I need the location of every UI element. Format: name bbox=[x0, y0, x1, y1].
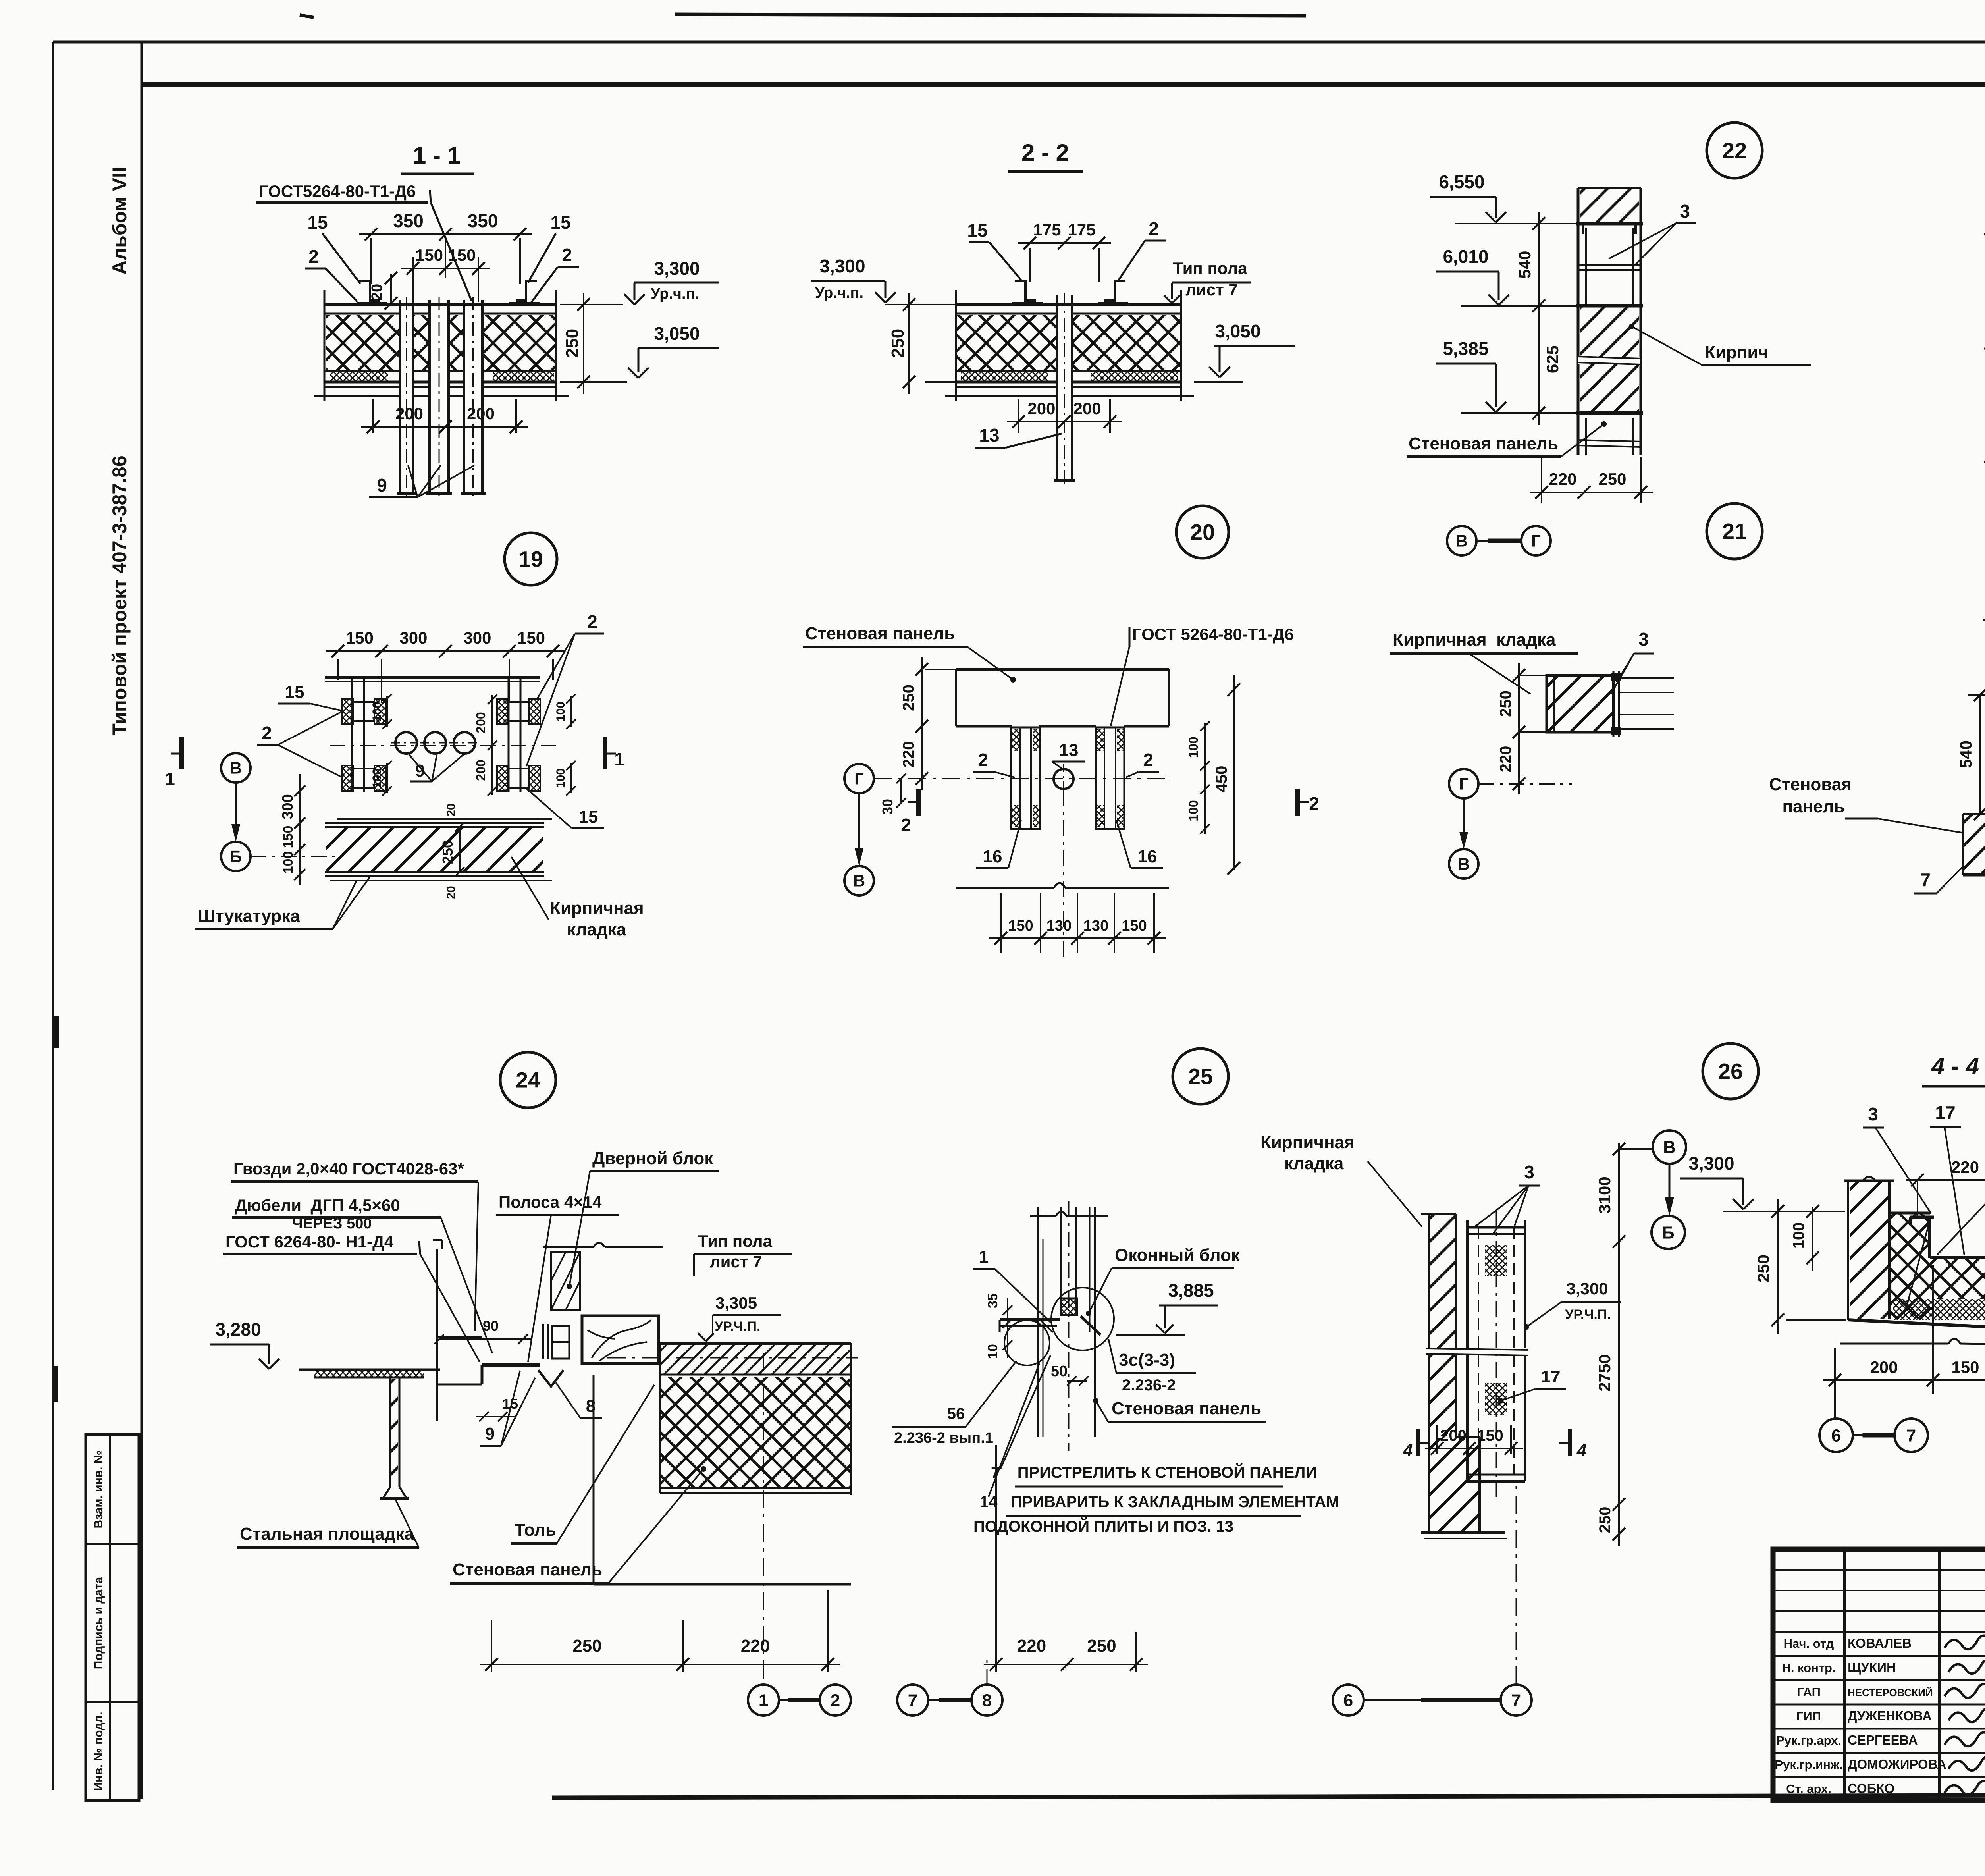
detail 24 threshold sill bbox=[482, 1363, 540, 1367]
svg-text:200: 200 bbox=[395, 404, 423, 423]
detail 24 groove bbox=[538, 1370, 563, 1386]
svg-text:250: 250 bbox=[439, 840, 456, 864]
svg-text:1: 1 bbox=[979, 1247, 989, 1267]
detail 19 dim 200/200 bbox=[372, 399, 374, 433]
svg-text:В: В bbox=[1456, 532, 1468, 550]
svg-text:13: 13 bbox=[1059, 740, 1079, 760]
plan 19 axis V/B circles bbox=[221, 753, 251, 783]
svg-text:220: 220 bbox=[1497, 746, 1515, 773]
svg-text:250: 250 bbox=[1497, 690, 1515, 717]
svg-text:Кирпичная: Кирпичная bbox=[1260, 1133, 1355, 1152]
svg-text:Дверной блок: Дверной блок bbox=[592, 1149, 713, 1168]
axis circles 1-2 bbox=[748, 1685, 779, 1716]
svg-text:Ст. арх.: Ст. арх. bbox=[1786, 1782, 1831, 1796]
svg-text:150: 150 bbox=[1122, 918, 1147, 934]
detail 26 brick wall bbox=[1421, 1213, 1456, 1215]
plan 20 central pipe circle bbox=[1054, 769, 1073, 789]
svg-text:15: 15 bbox=[285, 683, 304, 702]
plan 19 top dims 150/300/300/150 bbox=[337, 659, 339, 680]
svg-text:1: 1 bbox=[165, 769, 175, 789]
detail 23 dim 540 bbox=[1979, 695, 1981, 814]
detail 25 hook piece bbox=[1081, 1316, 1100, 1335]
svg-text:8: 8 bbox=[982, 1691, 992, 1710]
svg-text:220: 220 bbox=[1017, 1636, 1046, 1656]
svg-text:Стеновая панель: Стеновая панель bbox=[453, 1560, 602, 1579]
svg-text:100: 100 bbox=[370, 768, 384, 788]
svg-text:150: 150 bbox=[1951, 1358, 1979, 1377]
svg-text:200: 200 bbox=[467, 404, 495, 423]
plan 19 dim 250 / 20 bbox=[459, 827, 461, 872]
svg-text:250: 250 bbox=[888, 329, 908, 358]
detail 25 sill plate bbox=[1000, 1318, 1060, 1321]
svg-text:3с(3-3): 3с(3-3) bbox=[1119, 1350, 1175, 1370]
svg-text:Альбом VII: Альбом VII bbox=[108, 167, 131, 274]
section 4-4 bottom layers bbox=[1893, 1299, 1985, 1320]
section 4-4 floor and channel bbox=[1889, 1212, 1930, 1215]
svg-text:3,300: 3,300 bbox=[1566, 1279, 1608, 1298]
detail 22 axis B-G bbox=[1447, 526, 1476, 555]
svg-text:Гвозди 2,0×40 ГОСТ4028-63*: Гвозди 2,0×40 ГОСТ4028-63* bbox=[233, 1159, 464, 1178]
svg-text:7: 7 bbox=[1511, 1691, 1521, 1710]
plan 21 axis G/V bbox=[1449, 769, 1478, 798]
svg-text:ГАП: ГАП bbox=[1797, 1685, 1821, 1699]
svg-text:Типовой проект 407-3-387.86: Типовой проект 407-3-387.86 bbox=[108, 455, 131, 735]
svg-text:200: 200 bbox=[1440, 1427, 1467, 1444]
svg-text:В: В bbox=[1458, 855, 1470, 873]
plan 20 right dims 100/100/450 bbox=[1204, 723, 1206, 834]
svg-text:150: 150 bbox=[517, 629, 545, 647]
svg-text:13: 13 bbox=[979, 425, 999, 445]
plan 20 panel rect bbox=[956, 668, 1169, 671]
svg-text:250: 250 bbox=[563, 329, 582, 358]
svg-text:26: 26 bbox=[1718, 1059, 1743, 1084]
detail 22 vertical dims 540 / 625 bbox=[1538, 212, 1540, 425]
svg-text:3: 3 bbox=[1638, 629, 1649, 650]
detail 20 bubble bbox=[1176, 506, 1229, 558]
svg-text:Кирпичная: Кирпичная bbox=[550, 898, 644, 918]
svg-text:СЕРГЕЕВА: СЕРГЕЕВА bbox=[1848, 1733, 1918, 1747]
svg-text:150: 150 bbox=[1008, 918, 1033, 934]
signatures scribbles bbox=[1945, 1635, 1985, 1649]
svg-text:150: 150 bbox=[1477, 1427, 1503, 1444]
plan 20 section marks 2 bbox=[916, 789, 921, 816]
svg-text:В: В bbox=[230, 759, 242, 777]
svg-text:3,300: 3,300 bbox=[654, 258, 700, 279]
detail 19 floor slab bbox=[324, 303, 556, 306]
svg-text:Рук.гр.арх.: Рук.гр.арх. bbox=[1776, 1733, 1841, 1747]
svg-text:2: 2 bbox=[1149, 218, 1159, 239]
svg-text:Стеновая: Стеновая bbox=[1769, 775, 1852, 794]
outer thin border left bbox=[52, 42, 54, 1790]
svg-text:УР.Ч.П.: УР.Ч.П. bbox=[1565, 1307, 1611, 1322]
axis circles 7-8 bbox=[897, 1685, 928, 1716]
plan 19 section marks 1 bbox=[179, 737, 184, 769]
svg-text:100: 100 bbox=[554, 768, 567, 788]
svg-text:14 ПРИВАРИТЬ К ЗАКЛАДНЫМ ЭЛЕ: 14 ПРИВАРИТЬ К ЗАКЛАДНЫМ ЭЛЕМЕНТАМ bbox=[980, 1493, 1339, 1511]
svg-text:3,300: 3,300 bbox=[1688, 1153, 1734, 1174]
plan 19 small dims 100 bbox=[386, 696, 388, 727]
svg-text:130: 130 bbox=[1083, 918, 1108, 934]
detail 26 bubble bbox=[1703, 1043, 1758, 1099]
plan 19 vertical dims 300/150/100 bbox=[299, 774, 301, 885]
svg-text:21: 21 bbox=[1722, 519, 1747, 544]
svg-text:15: 15 bbox=[579, 807, 598, 827]
plan 20 axis V bbox=[844, 866, 874, 895]
svg-text:200: 200 bbox=[474, 712, 488, 733]
svg-text:Кирпичная кладка: Кирпичная кладка bbox=[1393, 630, 1556, 650]
svg-text:Г: Г bbox=[1459, 775, 1469, 793]
svg-text:2750: 2750 bbox=[1595, 1354, 1614, 1391]
plan 20 bottom dims 150/130/130/150 bbox=[1000, 893, 1002, 953]
svg-text:ГОСТ 5264-80-Т1-Д6: ГОСТ 5264-80-Т1-Д6 bbox=[1132, 625, 1294, 644]
detail 24 bubble bbox=[500, 1052, 556, 1108]
svg-text:220: 220 bbox=[1951, 1158, 1979, 1176]
svg-text:350: 350 bbox=[393, 210, 424, 231]
svg-text:2: 2 bbox=[587, 611, 597, 632]
detail 19 dim 350/350 bbox=[370, 238, 372, 284]
plan 21 panel edge bbox=[1613, 671, 1615, 737]
svg-text:2: 2 bbox=[262, 723, 272, 743]
svg-text:Г: Г bbox=[1531, 532, 1541, 550]
svg-text:130: 130 bbox=[1046, 918, 1072, 934]
svg-text:22: 22 bbox=[1722, 138, 1747, 163]
svg-text:Ур.ч.п.: Ур.ч.п. bbox=[651, 285, 699, 302]
svg-text:лист 7: лист 7 bbox=[710, 1252, 762, 1271]
svg-text:250: 250 bbox=[900, 684, 917, 711]
svg-text:150: 150 bbox=[346, 629, 374, 647]
plan 20 axis G bbox=[844, 764, 874, 793]
svg-text:250: 250 bbox=[1754, 1255, 1773, 1282]
section 4-4 dim 220 bbox=[1917, 1180, 1918, 1218]
svg-text:540: 540 bbox=[1956, 740, 1975, 768]
detail 24 floor slab bbox=[660, 1342, 851, 1345]
svg-text:16: 16 bbox=[983, 847, 1002, 866]
svg-text:3: 3 bbox=[1524, 1162, 1534, 1182]
svg-text:30: 30 bbox=[879, 799, 896, 815]
fold smudges left border bbox=[52, 1016, 59, 1048]
svg-text:450: 450 bbox=[1213, 766, 1230, 792]
section 4-4 dims 100/250 bbox=[1812, 1207, 1813, 1271]
svg-text:19: 19 bbox=[518, 547, 543, 572]
detail 25 detail circles bbox=[1004, 1320, 1050, 1365]
svg-text:100: 100 bbox=[1186, 800, 1201, 821]
svg-text:100: 100 bbox=[281, 851, 296, 874]
svg-text:5,385: 5,385 bbox=[1443, 338, 1488, 359]
svg-text:Полоса 4×14: Полоса 4×14 bbox=[499, 1193, 602, 1211]
detail 24 door wood block bbox=[551, 1252, 580, 1310]
svg-text:Оконный блок: Оконный блок bbox=[1115, 1246, 1240, 1265]
svg-text:4 - 4: 4 - 4 bbox=[1931, 1053, 1979, 1080]
detail 20 dim 250 bbox=[925, 304, 956, 305]
detail 26 window panel column bbox=[1466, 1220, 1469, 1481]
detail 24 steel platform bbox=[299, 1369, 440, 1371]
svg-text:2: 2 bbox=[831, 1691, 840, 1710]
section 4-4 hatch blocks bbox=[1891, 1214, 1930, 1319]
svg-text:Тип пола: Тип пола bbox=[1173, 259, 1248, 278]
svg-text:1: 1 bbox=[759, 1691, 768, 1710]
svg-text:ДУЖЕНКОВА: ДУЖЕНКОВА bbox=[1848, 1708, 1932, 1723]
svg-text:540: 540 bbox=[1515, 251, 1534, 278]
svg-text:6: 6 bbox=[1343, 1691, 1353, 1710]
detail 19 channel profile right (pos 2) bbox=[516, 281, 537, 301]
detail 25 window block bottom bbox=[1062, 1299, 1077, 1315]
plan 21 dims 250/220 bbox=[1519, 675, 1547, 676]
svg-text:Штукатурка: Штукатурка bbox=[198, 906, 300, 926]
svg-text:2 - 2: 2 - 2 bbox=[1021, 139, 1069, 166]
svg-text:7: 7 bbox=[1920, 870, 1931, 890]
svg-text:175: 175 bbox=[1068, 220, 1095, 239]
bottom-left stamp boxes bbox=[86, 1434, 139, 1801]
svg-text:ГИП: ГИП bbox=[1796, 1709, 1821, 1723]
detail 19 dim 250 bbox=[560, 304, 595, 305]
svg-text:1: 1 bbox=[614, 749, 624, 769]
svg-text:200: 200 bbox=[1027, 399, 1055, 418]
svg-text:6: 6 bbox=[1831, 1426, 1841, 1445]
svg-text:150: 150 bbox=[415, 246, 443, 264]
svg-text:15: 15 bbox=[307, 212, 328, 233]
svg-text:Б: Б bbox=[230, 847, 242, 866]
svg-text:Ур.ч.п.: Ур.ч.п. bbox=[815, 285, 863, 301]
detail 25 dims 35/10 bbox=[1007, 1298, 1008, 1331]
inner frame bottom bbox=[552, 1795, 1985, 1798]
detail 25 bubble bbox=[1173, 1049, 1228, 1104]
detail 26 vertical dim chain bbox=[1618, 1143, 1620, 1546]
plan 19 embed plates bbox=[342, 699, 353, 724]
svg-text:Стеновая панель: Стеновая панель bbox=[805, 624, 955, 643]
section 4-4 diag leader marks bbox=[1906, 1225, 1929, 1310]
plan 19 brick wall band bbox=[337, 818, 552, 820]
detail 26 axis V/B bbox=[1653, 1130, 1686, 1164]
signature table columns bbox=[1843, 1549, 1846, 1801]
detail 20 floor slab bbox=[956, 303, 1181, 306]
svg-text:200: 200 bbox=[474, 760, 488, 781]
svg-text:220: 220 bbox=[1549, 470, 1576, 488]
svg-text:16: 16 bbox=[1138, 847, 1157, 866]
detail 20 channel profiles bbox=[1015, 281, 1036, 301]
detail 26 axis 6-7 bbox=[1333, 1685, 1364, 1716]
detail 26 break band bbox=[1425, 1348, 1529, 1355]
svg-text:9: 9 bbox=[377, 475, 387, 496]
svg-text:625: 625 bbox=[1543, 345, 1562, 373]
svg-text:6,010: 6,010 bbox=[1443, 246, 1488, 267]
svg-text:ГОСТ5264-80-Т1-Д6: ГОСТ5264-80-Т1-Д6 bbox=[259, 182, 416, 201]
svg-text:3,280: 3,280 bbox=[215, 1319, 261, 1340]
svg-text:250: 250 bbox=[1598, 470, 1626, 488]
svg-text:250: 250 bbox=[1087, 1636, 1116, 1656]
svg-text:150: 150 bbox=[448, 246, 476, 264]
svg-text:ДОМОЖИРОВА: ДОМОЖИРОВА bbox=[1848, 1757, 1946, 1772]
detail 26 section marks 4 bbox=[1416, 1429, 1420, 1456]
plan 19 panel top edge bbox=[325, 676, 540, 679]
svg-text:Подпись и дата: Подпись и дата bbox=[92, 1577, 105, 1669]
signature table thin rows bbox=[1773, 1569, 1985, 1571]
detail 19 anchor pipes bbox=[401, 306, 412, 492]
svg-text:3: 3 bbox=[1680, 201, 1690, 222]
svg-text:3,050: 3,050 bbox=[654, 323, 700, 344]
svg-text:Стеновая панель: Стеновая панель bbox=[1409, 434, 1558, 453]
svg-text:3100: 3100 bbox=[1595, 1176, 1614, 1213]
plan 21 brick block bbox=[1547, 675, 1613, 732]
plan 20 bottom floor line bbox=[956, 887, 1054, 889]
svg-text:9: 9 bbox=[485, 1424, 495, 1444]
top scan smudge bbox=[675, 14, 1306, 16]
plan 20 dims left 250/220/30 bbox=[925, 669, 956, 670]
svg-text:2.236-2: 2.236-2 bbox=[1122, 1377, 1176, 1394]
svg-text:2: 2 bbox=[1309, 793, 1319, 814]
svg-text:Г: Г bbox=[854, 769, 864, 788]
svg-text:24: 24 bbox=[516, 1068, 540, 1093]
detail 25 window column bbox=[1037, 1207, 1039, 1437]
svg-text:350: 350 bbox=[468, 210, 498, 231]
detail 19 channel profile left (pos 2) bbox=[359, 281, 380, 301]
svg-text:7: 7 bbox=[1906, 1426, 1916, 1445]
svg-text:17: 17 bbox=[1935, 1102, 1955, 1123]
svg-text:Дюбели ДГП 4,5×60: Дюбели ДГП 4,5×60 bbox=[235, 1196, 400, 1215]
svg-text:20: 20 bbox=[445, 886, 458, 899]
svg-text:панель: панель bbox=[1782, 797, 1844, 816]
svg-text:Б: Б bbox=[1662, 1223, 1675, 1242]
svg-text:2: 2 bbox=[308, 246, 319, 267]
svg-text:В: В bbox=[853, 871, 865, 890]
svg-text:4: 4 bbox=[1403, 1441, 1413, 1460]
section 4-4 brick wall bbox=[1844, 1180, 1894, 1182]
plan 19 pipes circles bbox=[395, 732, 417, 754]
detail 24 door leaf bbox=[582, 1316, 659, 1363]
svg-text:Толь: Толь bbox=[515, 1520, 556, 1540]
detail 19 bubble bbox=[505, 533, 557, 585]
svg-text:2: 2 bbox=[901, 815, 911, 835]
svg-text:6,550: 6,550 bbox=[1439, 172, 1484, 192]
detail 19 dim 150/150 bbox=[412, 257, 414, 302]
svg-text:300: 300 bbox=[463, 629, 491, 647]
svg-text:7: 7 bbox=[908, 1691, 917, 1710]
svg-text:250: 250 bbox=[1596, 1507, 1614, 1533]
detail 22 dim 220/250 bbox=[1541, 457, 1542, 503]
svg-text:Взам. инв. №: Взам. инв. № bbox=[92, 1450, 105, 1529]
svg-text:ЩУКИН: ЩУКИН bbox=[1848, 1660, 1896, 1675]
detail 25 dims 220/250 bbox=[995, 1445, 997, 1672]
svg-text:220: 220 bbox=[900, 741, 917, 768]
inner margin line left bbox=[141, 42, 143, 1799]
svg-text:Тип пола: Тип пола bbox=[698, 1232, 773, 1250]
svg-text:Н. контр.: Н. контр. bbox=[1782, 1661, 1835, 1675]
svg-text:175: 175 bbox=[1033, 220, 1061, 239]
svg-text:250: 250 bbox=[572, 1636, 601, 1656]
detail 20 dim 200/200 bbox=[1018, 399, 1019, 433]
svg-text:35: 35 bbox=[985, 1293, 1000, 1308]
detail 24 panel face left bbox=[436, 1249, 438, 1421]
svg-text:17: 17 bbox=[1541, 1367, 1561, 1386]
svg-text:ПОДОКОННОЙ ПЛИТЫ И ПОЗ. 13: ПОДОКОННОЙ ПЛИТЫ И ПОЗ. 13 bbox=[973, 1517, 1233, 1535]
svg-text:300: 300 bbox=[399, 629, 427, 647]
svg-text:кладка: кладка bbox=[1284, 1154, 1344, 1173]
svg-text:кладка: кладка bbox=[567, 920, 626, 939]
detail 24 door frame profile bbox=[552, 1326, 569, 1359]
detail 20 dim 175/175 bbox=[1029, 248, 1031, 282]
svg-text:3: 3 bbox=[1868, 1104, 1878, 1124]
svg-text:20: 20 bbox=[1190, 520, 1215, 545]
svg-text:Стеновая панель: Стеновая панель bbox=[1112, 1399, 1261, 1418]
plan 20 channel assemblies bbox=[1011, 727, 1040, 829]
svg-text:100: 100 bbox=[554, 702, 567, 721]
svg-text:В: В bbox=[1663, 1138, 1676, 1157]
detail 22 wall column bbox=[1580, 189, 1639, 224]
svg-text:200: 200 bbox=[1870, 1358, 1898, 1377]
svg-text:100: 100 bbox=[1186, 737, 1201, 758]
svg-text:Кирпич: Кирпич bbox=[1705, 343, 1768, 362]
svg-text:Инв. № подл.: Инв. № подл. bbox=[92, 1712, 105, 1791]
svg-text:ГОСТ 6264-80- Н1-Д4: ГОСТ 6264-80- Н1-Д4 bbox=[225, 1232, 394, 1251]
plan 19 panel vertical edges bbox=[351, 677, 353, 792]
svg-text:УР.Ч.П.: УР.Ч.П. bbox=[715, 1319, 760, 1334]
svg-text:15: 15 bbox=[550, 212, 570, 233]
svg-text:10: 10 bbox=[985, 1344, 1000, 1359]
svg-text:50: 50 bbox=[1051, 1363, 1068, 1380]
section 4-4 dims 200/150 bbox=[1834, 1348, 1836, 1394]
plan 19 dims 200/200 bbox=[491, 695, 493, 795]
detail 20 anchor pipe (pos 13) bbox=[1058, 306, 1071, 480]
svg-text:Рук.гр.инж.: Рук.гр.инж. bbox=[1775, 1758, 1843, 1772]
svg-text:КОВАЛЕВ: КОВАЛЕВ bbox=[1848, 1636, 1912, 1650]
inner frame top thick bbox=[142, 82, 1985, 87]
svg-text:2: 2 bbox=[978, 750, 988, 770]
svg-text:20: 20 bbox=[369, 284, 385, 301]
svg-text:7 ПРИСТРЕЛИТЬ К СТЕНОВОЙ ПА: 7 ПРИСТРЕЛИТЬ К СТЕНОВОЙ ПАНЕЛИ bbox=[991, 1463, 1317, 1481]
section 4-4 axis 6-7 bbox=[1834, 1394, 1836, 1419]
svg-text:2: 2 bbox=[562, 245, 572, 265]
svg-text:15: 15 bbox=[967, 220, 987, 241]
svg-text:4: 4 bbox=[1576, 1441, 1586, 1460]
svg-text:90: 90 bbox=[483, 1318, 499, 1334]
svg-text:2: 2 bbox=[1143, 750, 1153, 770]
svg-text:3,885: 3,885 bbox=[1168, 1280, 1214, 1301]
svg-text:20: 20 bbox=[445, 803, 458, 816]
svg-text:100: 100 bbox=[370, 702, 384, 721]
svg-text:НЕСТЕРОВСКИЙ: НЕСТЕРОВСКИЙ bbox=[1848, 1687, 1933, 1699]
svg-text:25: 25 bbox=[1188, 1064, 1213, 1089]
svg-text:Стальная площадка: Стальная площадка bbox=[240, 1524, 414, 1544]
detail 19 dim 20 bbox=[390, 274, 392, 303]
svg-text:220: 220 bbox=[741, 1636, 770, 1656]
detail 26 dims 200/150 bbox=[1436, 1425, 1438, 1454]
svg-text:200: 200 bbox=[1073, 399, 1101, 418]
section 4-4 channel lining bbox=[1928, 1217, 1931, 1258]
outer thin border top bbox=[53, 41, 1985, 44]
svg-text:100: 100 bbox=[1790, 1222, 1808, 1249]
svg-text:СОБКО: СОБКО bbox=[1848, 1781, 1894, 1796]
svg-text:56: 56 bbox=[947, 1405, 965, 1423]
detail 23 panel band bbox=[1963, 813, 1985, 815]
svg-text:Нач. отд: Нач. отд bbox=[1784, 1637, 1834, 1650]
detail 24 door header line bbox=[543, 1246, 594, 1248]
svg-text:3,050: 3,050 bbox=[1215, 321, 1260, 341]
svg-text:2.236-2 вып.1: 2.236-2 вып.1 bbox=[894, 1430, 993, 1446]
svg-text:1 - 1: 1 - 1 bbox=[413, 142, 461, 169]
title block main bbox=[1773, 1549, 1985, 1801]
svg-text:300: 300 bbox=[279, 794, 296, 819]
detail 24 panel below bbox=[593, 1375, 595, 1584]
detail 24 dims 250/220 bbox=[491, 1620, 492, 1672]
svg-text:3,305: 3,305 bbox=[715, 1294, 757, 1312]
svg-text:3,300: 3,300 bbox=[819, 256, 865, 276]
detail 22 bubble bbox=[1707, 123, 1762, 178]
detail 21 bubble bbox=[1707, 503, 1762, 559]
svg-text:150: 150 bbox=[281, 826, 296, 848]
